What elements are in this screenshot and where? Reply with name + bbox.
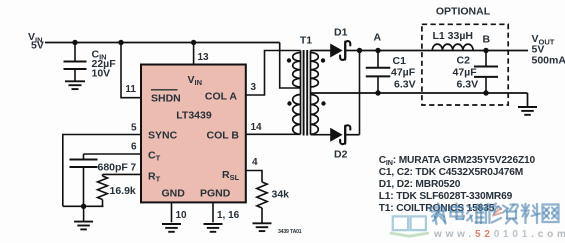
svg-text:D1: D1 xyxy=(334,27,348,39)
wire COL B to transformer xyxy=(246,133,301,135)
junction dot C1 bottom xyxy=(375,90,380,95)
svg-text:11: 11 xyxy=(125,84,136,95)
watermark book icon xyxy=(393,216,408,230)
wire GND pin xyxy=(171,202,173,222)
svg-text:13: 13 xyxy=(198,52,210,63)
svg-text:500mA: 500mA xyxy=(532,55,565,67)
phase dot secondary top xyxy=(321,58,325,62)
wire COL A to transformer xyxy=(246,51,301,96)
capacitor C1 xyxy=(377,51,379,68)
junction dot node B xyxy=(483,48,488,53)
transformer T1 secondary side line xyxy=(310,51,312,135)
ground at output xyxy=(518,106,537,108)
svg-text:47µF: 47µF xyxy=(391,67,416,79)
svg-text:3: 3 xyxy=(251,82,257,93)
junction dot node A xyxy=(375,48,380,53)
wire D2 riser xyxy=(359,51,361,135)
wire D1 to rail xyxy=(345,50,360,52)
svg-text:3439 TA01: 3439 TA01 xyxy=(278,229,302,235)
ground at timing net xyxy=(83,207,85,222)
svg-text:6: 6 xyxy=(131,142,137,153)
svg-text:6.3V: 6.3V xyxy=(457,79,479,91)
svg-text:COL B: COL B xyxy=(207,130,240,142)
junction dot at SHDN branch xyxy=(118,40,123,45)
wire to SHDN pin 11 xyxy=(121,43,141,98)
wire SYNC pin 5 xyxy=(63,135,141,207)
svg-text:SYNC: SYNC xyxy=(148,130,178,142)
svg-text:T1: T1 xyxy=(300,35,312,47)
capacitor C-T 680pF xyxy=(83,154,85,160)
wire to VIN pin 13 xyxy=(193,43,195,65)
svg-text:47µF: 47µF xyxy=(453,67,478,79)
transformer T1 core xyxy=(303,50,305,136)
ground at RSL xyxy=(261,208,263,223)
svg-text:34k: 34k xyxy=(272,189,290,201)
svg-text:CIN: MURATA GRM235Y5V226Z10: CIN: MURATA GRM235Y5V226Z10 xyxy=(379,155,536,167)
junction dot timing net xyxy=(81,204,86,209)
wire secondary top to D1 xyxy=(311,50,332,52)
wire VIN top rail xyxy=(45,42,280,44)
op-amp U1 LT3439 body xyxy=(141,65,246,203)
svg-text:1, 16: 1, 16 xyxy=(217,210,240,221)
svg-text:C1: C1 xyxy=(393,55,407,67)
svg-text:C1, C2: TDK C4532X5R0J476M: C1, C2: TDK C4532X5R0J476M xyxy=(379,167,523,178)
transformer T1 primary bottom winding xyxy=(293,95,301,135)
phase dot secondary bottom xyxy=(321,101,325,105)
svg-text:GND: GND xyxy=(162,188,186,200)
inductor L1 xyxy=(432,44,473,50)
svg-text:5: 5 xyxy=(131,123,137,134)
svg-text:14: 14 xyxy=(251,122,263,133)
capacitor CIN xyxy=(74,43,76,62)
wire RSL pin 4 xyxy=(246,171,262,183)
svg-text:D2: D2 xyxy=(334,149,348,161)
svg-text:D1, D2: MBR0520: D1, D2: MBR0520 xyxy=(379,179,461,190)
resistor RSL 34k xyxy=(257,182,267,208)
svg-text:OPTIONAL: OPTIONAL xyxy=(436,6,491,18)
svg-text:L1: TDK SLF6028T-330MR69: L1: TDK SLF6028T-330MR69 xyxy=(379,191,513,202)
wire output ground drop xyxy=(527,93,529,106)
svg-text:SHDN: SHDN xyxy=(151,93,181,105)
svg-text:4: 4 xyxy=(252,157,258,168)
phase dot primary top xyxy=(287,58,291,62)
ground at PGND pin xyxy=(204,223,223,225)
svg-text:L1 33µH: L1 33µH xyxy=(433,30,473,42)
svg-text:COL A: COL A xyxy=(205,91,238,103)
svg-text:A: A xyxy=(374,32,382,44)
junction dot C2 bottom xyxy=(483,90,488,95)
svg-text:16.9k: 16.9k xyxy=(110,185,136,197)
junction dot at pin13 branch xyxy=(191,40,196,45)
diode D2 schottky cathode xyxy=(345,125,350,143)
transformer T1 secondary bottom winding xyxy=(311,95,319,135)
wire CT pin 6 xyxy=(84,153,142,155)
svg-text:10V: 10V xyxy=(92,68,111,80)
optional dashed box xyxy=(422,24,508,105)
junction dot D1 cathode xyxy=(357,48,362,53)
resistor RT 16.9k xyxy=(102,174,104,176)
svg-text:B: B xyxy=(483,34,491,46)
svg-text:PGND: PGND xyxy=(200,188,231,200)
svg-text:www.520101.com: www.520101.com xyxy=(433,229,565,240)
capacitor C2 xyxy=(485,51,487,67)
watermark chinese text xyxy=(438,204,439,206)
diode D1 schottky cathode xyxy=(345,41,350,59)
svg-text:LT3439: LT3439 xyxy=(176,110,212,122)
svg-text:10: 10 xyxy=(176,210,188,221)
svg-text:C2: C2 xyxy=(457,55,471,67)
svg-text:5V: 5V xyxy=(31,40,44,52)
wire D2 to riser xyxy=(345,134,359,136)
diode D2 xyxy=(330,128,342,142)
transformer T1 primary top winding xyxy=(293,53,301,88)
wire secondary center tap rail xyxy=(311,92,528,94)
wire VIN to center tap xyxy=(280,43,301,89)
wire bottom junction xyxy=(63,205,104,207)
wire PGND pin xyxy=(212,202,214,222)
svg-text:680pF: 680pF xyxy=(98,162,129,174)
wire output top rail xyxy=(360,50,529,52)
transformer T1 secondary top winding xyxy=(311,53,319,88)
junction dot at CIN xyxy=(72,40,77,45)
wire RT pin 7 xyxy=(103,173,142,175)
svg-text:6.3V: 6.3V xyxy=(394,79,416,91)
ground at GND pin xyxy=(162,223,181,225)
ground below CIN xyxy=(74,79,76,81)
svg-text:7: 7 xyxy=(130,163,136,174)
diode D1 xyxy=(330,44,342,58)
transformer T1 primary side line xyxy=(300,51,302,135)
phase dot primary bottom xyxy=(287,101,291,105)
wire secondary bottom to D2 xyxy=(311,134,332,136)
